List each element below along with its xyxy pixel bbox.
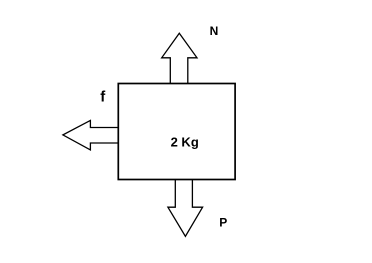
force arrow P (weight, downward block arrow)	[168, 180, 203, 236]
block: 2 Kg box	[118, 84, 235, 180]
svg-text:2 Kg: 2 Kg	[171, 134, 199, 149]
force arrow f (friction, leftward block arrow)	[63, 120, 118, 149]
svg-text:P: P	[219, 216, 227, 230]
force arrow N (normal force, upward block arrow)	[162, 33, 197, 83]
svg-text:f: f	[100, 88, 106, 105]
svg-text:N: N	[210, 24, 219, 38]
